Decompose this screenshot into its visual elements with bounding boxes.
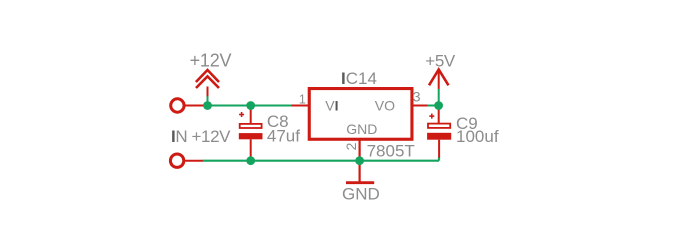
wire bbox=[203, 160, 440, 162]
node C8 bottom junction bbox=[246, 156, 255, 165]
capacitor C8 bbox=[239, 106, 263, 161]
wire bbox=[438, 157, 440, 161]
terminal J2 (bottom input) bbox=[170, 154, 202, 167]
op IC14 regulator box bbox=[309, 89, 412, 140]
pin 2 bbox=[359, 139, 361, 182]
pin 3 bbox=[414, 105, 428, 107]
svg-text:VO: VO bbox=[375, 98, 395, 114]
svg-text:IC14: IC14 bbox=[341, 69, 377, 88]
ground bbox=[346, 181, 374, 184]
wire bbox=[438, 89, 440, 106]
power symbol +5V bbox=[429, 70, 449, 89]
svg-text:VI: VI bbox=[325, 98, 338, 114]
power symbol +12V bbox=[196, 70, 219, 96]
pin 1 bbox=[292, 105, 310, 107]
wire bbox=[427, 105, 439, 107]
svg-text:+12V: +12V bbox=[190, 51, 232, 71]
node C8 top junction bbox=[246, 101, 255, 110]
capacitor C9 bbox=[427, 106, 451, 158]
terminal J1 (top input) bbox=[171, 99, 208, 112]
node GND junction bbox=[355, 156, 364, 165]
wire bbox=[208, 105, 292, 107]
svg-text:7805T: 7805T bbox=[367, 142, 415, 161]
wire bbox=[207, 96, 209, 106]
node top-left junction bbox=[203, 101, 212, 110]
svg-text:100uf: 100uf bbox=[456, 127, 499, 146]
svg-text:GND: GND bbox=[346, 121, 377, 137]
svg-text:47uf: 47uf bbox=[267, 126, 300, 145]
svg-text:GND: GND bbox=[342, 185, 380, 204]
svg-text:IN +12V: IN +12V bbox=[171, 127, 231, 146]
svg-text:2: 2 bbox=[343, 142, 359, 150]
node pin3 junction bbox=[434, 101, 443, 110]
svg-text:+5V: +5V bbox=[425, 52, 456, 71]
svg-text:1: 1 bbox=[299, 92, 306, 106]
svg-text:3: 3 bbox=[413, 88, 421, 104]
